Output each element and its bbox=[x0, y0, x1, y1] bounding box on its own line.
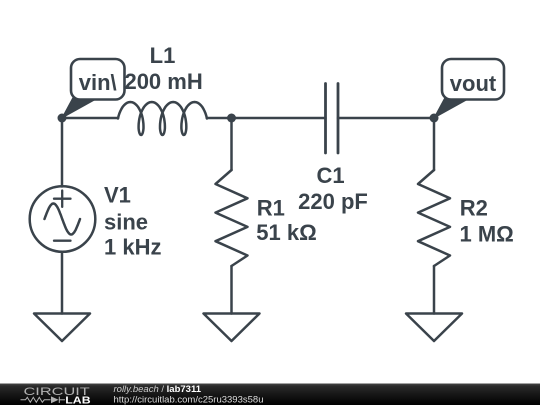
ground (left) bbox=[34, 314, 90, 342]
wire: vin node down to V1 bbox=[61, 118, 64, 187]
svg-text:vin\: vin\ bbox=[79, 70, 117, 95]
V1 sine wave bbox=[45, 204, 81, 235]
wire: V1 to left ground bbox=[61, 252, 64, 314]
wire: node B down to R1 bbox=[230, 118, 233, 170]
svg-text:51 kΩ: 51 kΩ bbox=[256, 220, 316, 245]
inductor L1 coil bbox=[118, 102, 207, 135]
resistor R1 zigzag bbox=[216, 170, 248, 266]
wire: R1 to middle ground bbox=[230, 266, 233, 314]
svg-text:R1: R1 bbox=[257, 195, 285, 220]
voltage source V1 circle bbox=[30, 186, 96, 252]
node B junction dot bbox=[227, 114, 236, 123]
ground (right) bbox=[406, 314, 462, 342]
wire: vout node down to R2 bbox=[433, 118, 436, 170]
V1 plus sign bbox=[54, 191, 71, 207]
svg-text:L1: L1 bbox=[150, 43, 176, 68]
logo resistor squiggle and diode bbox=[21, 397, 66, 403]
ground (middle) bbox=[204, 314, 260, 342]
node label vin bubble bbox=[62, 59, 125, 118]
wire: capacitor to vout node bbox=[338, 117, 434, 120]
svg-text:C1: C1 bbox=[316, 163, 344, 188]
wire: R2 to right ground bbox=[433, 266, 436, 314]
svg-text:200 mH: 200 mH bbox=[124, 69, 202, 94]
resistor R2 zigzag bbox=[418, 170, 450, 266]
node label vout bubble bbox=[434, 59, 504, 118]
svg-text:R2: R2 bbox=[460, 195, 488, 220]
svg-text:sine: sine bbox=[104, 210, 148, 235]
svg-text:LAB: LAB bbox=[65, 395, 90, 405]
V1 minus sign bbox=[54, 240, 71, 242]
svg-text:http://circuitlab.com/c25ru339: http://circuitlab.com/c25ru3393s58u bbox=[114, 394, 264, 405]
node A (vin) junction dot bbox=[58, 114, 67, 123]
capacitor C1 plates bbox=[326, 84, 339, 154]
svg-text:V1: V1 bbox=[104, 182, 131, 207]
wire: vin node to inductor bbox=[62, 117, 118, 120]
wire: node B to capacitor C1 bbox=[232, 117, 326, 120]
svg-text:220 pF: 220 pF bbox=[298, 189, 368, 214]
wire: inductor to node B bbox=[207, 117, 232, 120]
svg-text:1 kHz: 1 kHz bbox=[104, 235, 161, 260]
node C (vout) junction dot bbox=[430, 114, 439, 123]
svg-text:1 MΩ: 1 MΩ bbox=[460, 221, 514, 246]
svg-text:vout: vout bbox=[450, 71, 497, 96]
